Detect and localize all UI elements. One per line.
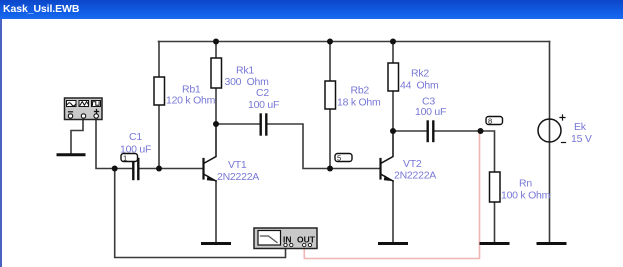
- svg-text:IN: IN: [283, 235, 292, 245]
- label VT2: [394, 158, 436, 182]
- node 8 junction at C3 right: [478, 128, 484, 134]
- resistor Rn: [490, 172, 501, 202]
- wire Rk2 bottom to VT2 collector node: [392, 91, 394, 131]
- svg-text:C1: C1: [129, 131, 142, 143]
- svg-text:120 k Ohm: 120 k Ohm: [166, 95, 216, 107]
- connector label box node 1: [121, 154, 138, 163]
- window title bar: [0, 0, 623, 19]
- resistor Rb1: [154, 77, 165, 105]
- label Rb2: [337, 85, 381, 109]
- wire Rb2 top: [329, 42, 331, 82]
- svg-text:Rk1: Rk1: [236, 65, 254, 77]
- wire Rb2 bottom to node 5: [329, 109, 331, 169]
- transistor VT2: [381, 132, 394, 182]
- ground (Rn): [481, 242, 508, 245]
- label Rk2: [400, 68, 439, 92]
- connector label box node 5: [335, 154, 352, 163]
- resistor Rk1: [211, 58, 222, 88]
- node 5 junction at VT2 base: [327, 166, 333, 172]
- ground (VT2 emitter): [380, 242, 407, 245]
- node junction VT2 collector / C3: [390, 128, 396, 134]
- svg-text:Rk2: Rk2: [411, 68, 429, 80]
- node junction at C1 right / Rb1: [156, 166, 162, 172]
- svg-text:100 k Ohm: 100 k Ohm: [501, 190, 551, 202]
- wire Ek vertical: [549, 42, 551, 243]
- label Rb1: [166, 84, 216, 107]
- transistor VT1: [204, 125, 217, 182]
- svg-text:Rb2: Rb2: [351, 85, 370, 97]
- ground (Ek): [538, 242, 565, 245]
- svg-text:VT1: VT1: [228, 159, 247, 171]
- node 1 junction at C1 left: [112, 166, 118, 172]
- wire VT1 collector node to C2: [216, 123, 260, 125]
- svg-text:VT2: VT2: [403, 158, 422, 170]
- wire Rk1 bottom to VT1 collector node: [215, 88, 217, 124]
- resistor Rk2: [388, 63, 399, 91]
- svg-text:44 Ohm: 44 Ohm: [400, 80, 439, 92]
- svg-text:100 uF: 100 uF: [120, 144, 151, 156]
- node junction top rail at Rk2: [390, 39, 396, 45]
- wire Rb1 top: [158, 42, 160, 78]
- node junction top rail at Rb2: [327, 39, 333, 45]
- wire Rk2 top: [392, 42, 394, 64]
- Bode plotter instrument: [254, 228, 317, 249]
- label VT1: [217, 159, 259, 183]
- resistor Rb2: [325, 81, 336, 109]
- wire node 1 to Bode plotter IN: [115, 169, 286, 258]
- wire Rk1 top: [215, 42, 217, 59]
- svg-text:2N2222A: 2N2222A: [394, 170, 436, 182]
- label C2: [248, 87, 279, 111]
- wire C3 to node 8 and Rn: [435, 131, 495, 172]
- wire VT1 emitter to ground: [215, 181, 217, 242]
- label C1: [120, 131, 151, 156]
- node junction top rail at Rk1: [213, 39, 219, 45]
- svg-text:2N2222A: 2N2222A: [217, 171, 259, 183]
- svg-text:100 uF: 100 uF: [415, 106, 446, 118]
- connector label box node 8: [486, 117, 503, 126]
- svg-text:C2: C2: [256, 87, 269, 99]
- wire VT2 emitter to ground: [392, 181, 394, 242]
- svg-text:8: 8: [488, 117, 492, 126]
- svg-text:15 V: 15 V: [571, 133, 592, 145]
- wire top rail from Rb1 to Ek: [159, 41, 550, 43]
- wire C1 to VT1 base: [139, 168, 204, 170]
- wire generator common to ground: [71, 120, 83, 154]
- svg-text:18 k Ohm: 18 k Ohm: [337, 97, 381, 109]
- wire C2 to node 5: [268, 124, 331, 169]
- wire Rb1 bottom to node 1: [158, 105, 160, 169]
- label Rk1: [225, 65, 270, 89]
- label Rn: [501, 178, 551, 202]
- capacitor C2: [261, 115, 267, 135]
- ground (VT1 emitter): [203, 242, 230, 245]
- svg-text:OUT: OUT: [297, 235, 316, 245]
- svg-text:100 uF: 100 uF: [248, 99, 279, 111]
- wire Bode plotter OUT to node 8 (selected, pink): [304, 131, 479, 259]
- wire Rn bottom to ground: [494, 202, 496, 242]
- label Ek: [571, 121, 592, 145]
- window left border: [0, 19, 2, 267]
- capacitor C3: [428, 122, 434, 142]
- label C3: [415, 96, 446, 119]
- svg-text:Rn: Rn: [519, 178, 532, 190]
- voltage source Ek: [538, 115, 566, 143]
- wire VT2 collector node to C3: [393, 130, 427, 132]
- function generator instrument: [65, 98, 103, 120]
- svg-text:5: 5: [337, 154, 341, 163]
- svg-text:Ek: Ek: [574, 121, 587, 133]
- ground (function generator): [58, 153, 84, 156]
- wire node 5 to VT2 base: [330, 168, 380, 170]
- capacitor C1: [133, 159, 138, 179]
- node junction VT1 collector / C2: [213, 121, 219, 127]
- wire generator plus to C1: [96, 120, 133, 169]
